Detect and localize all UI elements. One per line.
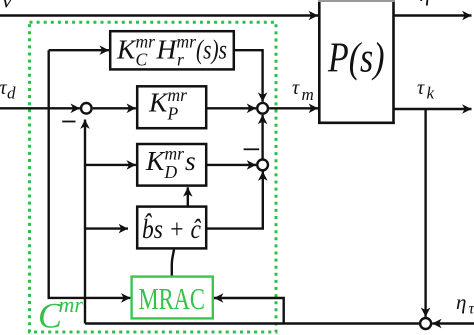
block K_C^mr H_r^mr(s)s <box>110 31 234 69</box>
node label tau_k <box>417 77 435 103</box>
minus sign at J1 <box>62 121 75 123</box>
svg-text:P(s): P(s) <box>327 36 384 82</box>
block MRAC <box>132 277 213 319</box>
svg-text:m: m <box>302 85 314 104</box>
wire feedback branch into K_D <box>85 164 136 166</box>
wire eta (top right output of P(s)) <box>394 14 472 16</box>
svg-text:d: d <box>7 84 16 103</box>
wire J3 to J2 (up) <box>261 115 263 160</box>
green dotted boundary of controller C^mr <box>30 22 277 332</box>
svg-text:K: K <box>145 145 166 176</box>
svg-text:D: D <box>164 162 178 182</box>
wire into K_C block <box>49 49 109 51</box>
node label eta_tau <box>456 290 474 318</box>
wire bottom feedback from J4 <box>85 322 419 324</box>
wire tau_k output of P(s) <box>394 108 472 110</box>
summing junction J4 <box>420 318 431 329</box>
wire feedback branch into bhat block <box>85 227 128 229</box>
svg-text:v: v <box>2 0 13 13</box>
wire bhat block output to J3 (right then up) <box>207 171 263 228</box>
wire K_C output to J2 (down) <box>234 50 263 102</box>
label C^mr <box>38 292 83 335</box>
block K_P^mr <box>137 85 206 128</box>
wire J1 to K_P <box>93 107 136 109</box>
wire adaptation MRAC top to bhat block bottom <box>172 250 174 277</box>
block bhat s + chat <box>137 207 206 249</box>
wire eta_tau input from right <box>432 322 474 324</box>
wire tau_d input <box>0 107 80 109</box>
svg-text:MRAC: MRAC <box>139 281 206 316</box>
svg-text:(s)s: (s)s <box>196 34 227 65</box>
svg-text:mr: mr <box>59 292 84 317</box>
block P(s) <box>318 0 395 124</box>
minus sign at J3 <box>244 148 260 150</box>
svg-text:mr: mr <box>136 32 156 52</box>
svg-text:b̂s + ĉ: b̂s + ĉ <box>142 213 202 244</box>
summing junction J2 <box>257 103 268 114</box>
svg-text:η: η <box>420 0 431 6</box>
svg-text:P: P <box>167 104 179 124</box>
node label tau_d <box>0 77 16 103</box>
summing junction J1 <box>81 103 92 114</box>
summing junction J3 <box>257 160 268 171</box>
svg-text:C: C <box>136 50 148 70</box>
svg-text:H: H <box>156 34 179 65</box>
svg-text:mr: mr <box>177 32 197 52</box>
wire tau_k branch down to J4 <box>424 109 426 317</box>
block K_D^mr s <box>137 144 206 186</box>
svg-text:K: K <box>116 34 137 65</box>
wire branch from tau_d up to K_C and down to MRAC <box>49 50 131 298</box>
svg-text:s: s <box>185 145 196 176</box>
svg-text:r: r <box>177 50 184 70</box>
svg-text:τ: τ <box>469 301 474 318</box>
wire J2 to P(s), tau_m <box>269 107 318 109</box>
wire K_D to J3 <box>207 164 256 166</box>
wire v (top input into P(s)) <box>0 14 318 16</box>
svg-text:η: η <box>456 290 466 314</box>
svg-text:mr: mr <box>165 144 185 164</box>
svg-text:K: K <box>148 87 169 118</box>
svg-text:τ: τ <box>292 77 300 99</box>
wire MRAC right input from bottom feedback <box>214 298 284 324</box>
wire feedback vertical up into J1 <box>84 120 86 324</box>
wire K_P to J2 <box>207 107 256 109</box>
svg-text:τ: τ <box>417 77 425 99</box>
wire adaptation bhat block top into K_D bottom <box>187 187 189 207</box>
svg-text:k: k <box>427 84 435 103</box>
svg-text:mr: mr <box>168 85 188 105</box>
node label tau_m <box>292 77 314 104</box>
